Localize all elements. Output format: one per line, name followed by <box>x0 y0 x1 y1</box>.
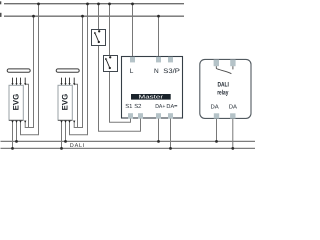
svg-text:S1: S1 <box>125 103 132 110</box>
svg-text:relay: relay <box>217 89 228 96</box>
svg-text:DA: DA <box>166 104 174 110</box>
svg-text:DALI: DALI <box>70 143 85 149</box>
svg-text:Master: Master <box>139 95 164 101</box>
svg-text:S3/P: S3/P <box>163 68 180 75</box>
svg-text:DA: DA <box>211 103 219 110</box>
svg-text:DALI: DALI <box>218 82 230 89</box>
svg-text:L: L <box>130 68 134 75</box>
svg-text:S2: S2 <box>134 103 141 110</box>
svg-text:EVG: EVG <box>60 94 69 111</box>
svg-text:DA: DA <box>229 103 237 110</box>
svg-text:DA+: DA+ <box>155 104 165 110</box>
svg-text:N: N <box>154 68 159 75</box>
svg-text:EVG: EVG <box>11 94 20 111</box>
